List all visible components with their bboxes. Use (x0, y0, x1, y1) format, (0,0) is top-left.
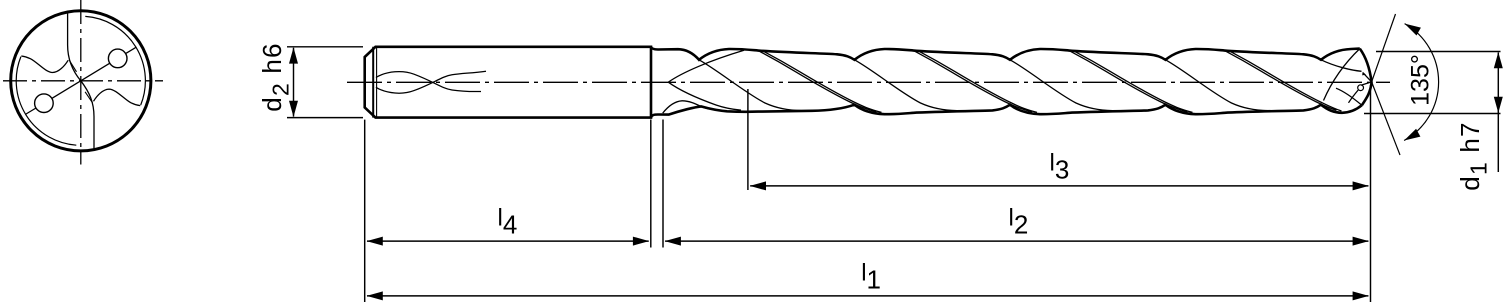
coolant hole upper right (108, 49, 127, 68)
shank chamfer edge line (372, 47, 374, 118)
tip flank curve (1324, 49, 1360, 101)
svg-text:l3: l3 (1050, 149, 1070, 184)
dimension l2 arrow left (665, 237, 681, 246)
end view flute heel line bottom (81, 81, 94, 151)
d2 arrow bottom (289, 101, 298, 117)
tip outline upper (1360, 49, 1372, 82)
coolant channel curve A (376, 72, 481, 92)
tip lower lip line (1349, 90, 1359, 103)
margin land line 1a (759, 51, 877, 112)
radial line beyond upper right hole (126, 47, 137, 54)
end view body clearance arc lower left (16, 57, 76, 146)
end view flute heel line top (68, 11, 81, 81)
svg-text:d2 h6: d2 h6 (257, 42, 294, 111)
coolant channel curve B (376, 71, 486, 93)
extension line flute start (662, 120, 664, 248)
dimension l3 arrow left (750, 181, 766, 190)
end view body clearance arc upper right (85, 16, 145, 105)
dimension l4 line (367, 240, 649, 242)
margin land line 1b (764, 51, 882, 112)
margin land line 2a (914, 51, 1032, 112)
d2 arrow top (289, 47, 298, 63)
dimension l1 arrow right (1353, 291, 1369, 300)
body top edge (651, 47, 1360, 60)
margin land line 3a (1070, 51, 1188, 112)
svg-text:d1 h7: d1 h7 (1455, 121, 1492, 190)
shank chamfer inner line (376, 47, 378, 118)
tip chisel line (1363, 73, 1372, 82)
flute trailing edge line 5 (1321, 60, 1362, 72)
tip lower flank line (1336, 88, 1361, 105)
end view outer circle d1 (11, 11, 151, 151)
margin land line 2b (919, 51, 1037, 112)
point angle arrow upper (1405, 24, 1421, 36)
dimension l1 arrow left (367, 291, 383, 300)
dimension l3 line (750, 185, 1368, 187)
flute runout arch at neck (663, 101, 726, 113)
extension line l3 start (747, 89, 749, 190)
d2 extension line top (287, 46, 363, 48)
radial line beyond lower left hole (25, 108, 36, 115)
tip coolant hole (1358, 85, 1364, 91)
coolant hole lower left (35, 94, 54, 113)
margin land line 4a (1225, 51, 1337, 110)
flute trailing edge line 4 (1166, 60, 1269, 111)
side view centerline (347, 81, 1390, 83)
end view horizontal centerline (3, 80, 163, 82)
dimension l2 arrow right (1353, 237, 1369, 246)
flute runout upper line (668, 50, 744, 82)
end view flute face curve upper left (21, 56, 68, 73)
d1 arrow bottom (1494, 97, 1503, 113)
point angle arc (1404, 24, 1439, 141)
flute trailing edge line 2 (855, 60, 958, 111)
end view web diagonal lower (85, 92, 93, 103)
d1 extension line bottom (1364, 113, 1501, 115)
radial line to upper right hole (81, 63, 110, 81)
d1 extension line top (1376, 51, 1501, 53)
extension line shank left (364, 120, 366, 302)
svg-text:l2: l2 (1009, 205, 1029, 240)
end view flute face curve lower right (94, 89, 141, 106)
svg-text:l4: l4 (498, 205, 518, 240)
point angle arrow lower (1404, 129, 1420, 141)
dimension l4 arrow left (367, 237, 383, 246)
tip chisel notch (1362, 72, 1366, 75)
extension line shank end (650, 120, 652, 248)
dimension l4 arrow right (633, 237, 649, 246)
flute runout lower line (668, 82, 741, 110)
dimension l2 line (665, 240, 1368, 242)
dimension l1 line (367, 295, 1368, 297)
d2 dimension line (293, 48, 295, 117)
point angle line upper (1372, 14, 1396, 82)
end view web diagonal upper (69, 60, 77, 72)
d2 extension line bottom (287, 117, 363, 119)
svg-text:135°: 135° (1407, 54, 1435, 106)
extension line tip (1370, 85, 1372, 302)
shank outline (365, 47, 651, 118)
dimension l3 arrow right (1353, 181, 1369, 190)
margin land line 4b (1230, 51, 1342, 111)
d1 arrow top (1494, 52, 1503, 68)
d1 dimension line (1497, 53, 1499, 173)
body bottom edge (651, 105, 1362, 118)
flute trailing edge line 3 (1010, 60, 1113, 111)
tip apex line (1361, 82, 1372, 85)
margin land line 3b (1075, 51, 1193, 112)
svg-text:l1: l1 (861, 259, 881, 294)
flute trailing edge line 1 (699, 60, 802, 111)
radial line to lower left hole (52, 81, 81, 99)
tip outline lower (1362, 82, 1372, 105)
point angle line lower (1372, 82, 1400, 155)
end view vertical centerline (80, 0, 82, 165)
